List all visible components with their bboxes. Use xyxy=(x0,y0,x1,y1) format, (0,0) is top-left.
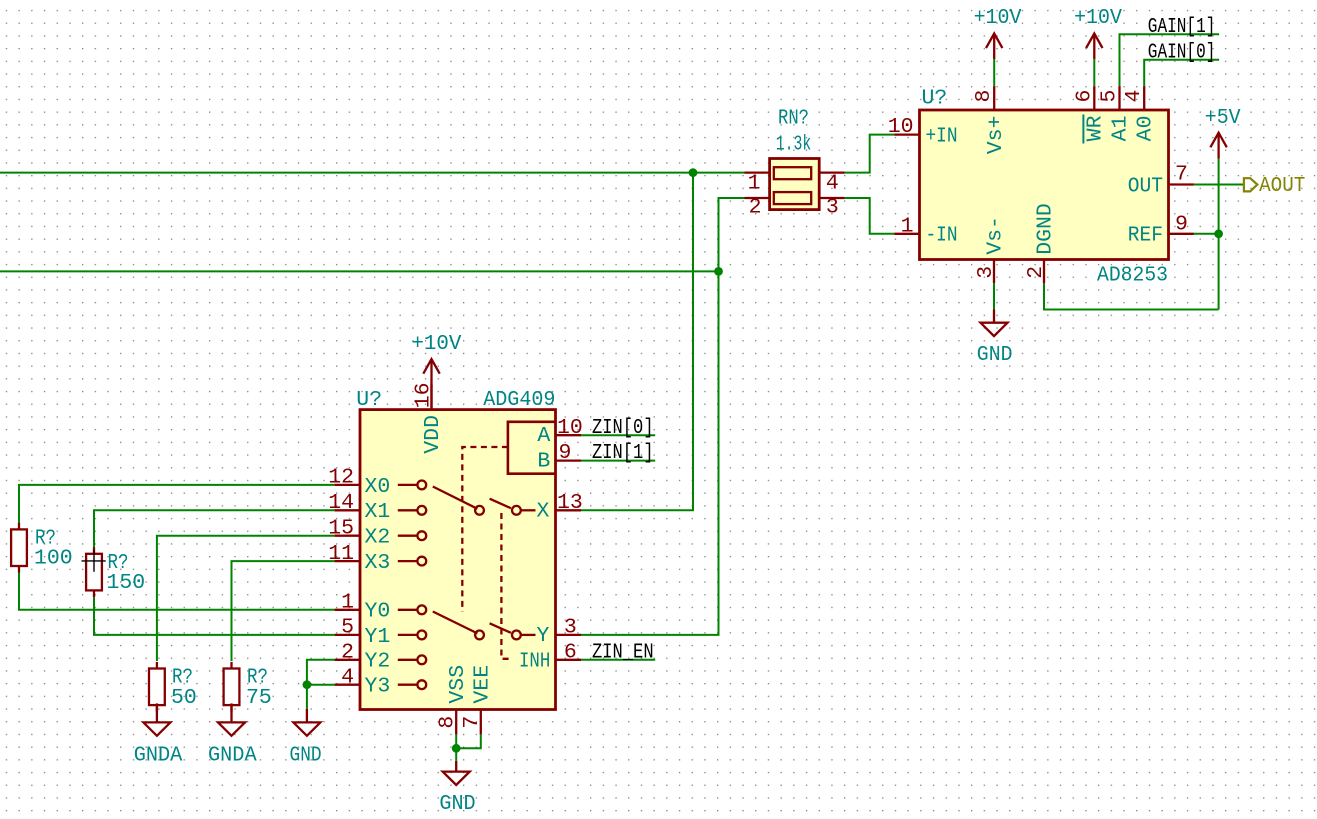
U1 pin 4 number xyxy=(1122,90,1146,103)
wire INH ZIN_EN xyxy=(581,659,655,661)
wire X0 to R1 top xyxy=(19,485,335,523)
U2 control box A/B xyxy=(508,422,556,474)
svg-text:+IN: +IN xyxy=(926,125,958,149)
svg-text:A: A xyxy=(537,424,550,448)
U2 switch contact X2 xyxy=(398,531,426,540)
label ZIN_EN xyxy=(592,640,654,664)
U1 pin name A0 xyxy=(1133,116,1157,142)
U1 pin 4 A0 stub xyxy=(1143,86,1145,110)
svg-text:X0: X0 xyxy=(365,475,391,499)
U2 pin name A xyxy=(537,424,550,448)
svg-text:AOUT: AOUT xyxy=(1259,174,1305,198)
svg-text:X2: X2 xyxy=(365,526,391,550)
cursor crosshair xyxy=(82,550,106,572)
U1 pin name WR with overline xyxy=(1083,115,1107,144)
U1 pin 3 Vs- stub xyxy=(993,260,995,284)
U2 switch contact X1 xyxy=(398,506,426,515)
svg-text:AD8253: AD8253 xyxy=(1097,263,1168,287)
U1 pin 5 A1 stub xyxy=(1118,86,1120,110)
svg-text:10: 10 xyxy=(557,416,583,440)
U2 pin 14 number xyxy=(328,491,354,515)
U1 pin name -IN xyxy=(926,224,958,248)
wire R2 bottom to Y1 xyxy=(94,597,335,635)
label RN? reference xyxy=(778,107,809,131)
U2 switch contact Y3 xyxy=(398,680,426,689)
svg-text:7: 7 xyxy=(1175,163,1188,187)
svg-text:+10V: +10V xyxy=(411,332,461,356)
svg-text:1: 1 xyxy=(341,591,354,615)
U1 pin 7 OUT stub xyxy=(1169,183,1194,185)
svg-text:DGND: DGND xyxy=(1034,203,1058,255)
ground GNDA under R4 xyxy=(218,703,245,735)
op-amp U1 AD8253 body xyxy=(920,110,1169,260)
svg-text:Y: Y xyxy=(536,624,549,648)
svg-text:2: 2 xyxy=(1024,266,1048,279)
label R1 reference R? xyxy=(35,527,56,551)
U1 pin 2 number xyxy=(1024,266,1048,279)
U2 pin 4 Y3 stub xyxy=(335,684,360,686)
label R3 value 50 xyxy=(171,686,197,710)
svg-text:ZIN[0]: ZIN[0] xyxy=(592,416,654,440)
wire Y2 to GND xyxy=(307,660,335,685)
resistor R3 lead top xyxy=(156,662,158,669)
power +5V xyxy=(1210,133,1226,159)
U2 pin 6 number xyxy=(564,640,577,664)
svg-text:VDD: VDD xyxy=(421,415,445,454)
wire net IN- horizontal xyxy=(0,270,719,272)
resistor R2 lead top xyxy=(93,547,95,554)
label R1 value 100 xyxy=(34,547,73,571)
wire OUT to AOUT xyxy=(1194,184,1243,186)
U2 pin 7 VEE stub xyxy=(480,710,482,735)
U2 pin 1 number xyxy=(341,591,354,615)
U2 pin 16 VDD stub xyxy=(430,384,432,409)
svg-text:16: 16 xyxy=(412,382,436,408)
svg-text:4: 4 xyxy=(826,171,839,195)
U1 pin 10 +IN stub xyxy=(894,133,919,135)
ground GND under VSS/VEE xyxy=(443,761,470,785)
U2 pin 11 X3 stub xyxy=(335,560,360,562)
label RN? value 1.3k xyxy=(776,132,812,156)
resistor R3 lead bottom xyxy=(156,705,158,712)
wire Vs+ to +10V xyxy=(993,59,995,86)
U2 pin 12 number xyxy=(328,466,354,490)
U2 pin 8 VSS stub xyxy=(455,710,457,735)
U2 label ADG409 xyxy=(483,388,555,412)
wire X2 to R3 top xyxy=(157,536,335,661)
U2 pin name Y2 xyxy=(365,650,391,674)
U2 pin 10 A stub xyxy=(556,434,582,436)
U2 dashed control line 2 xyxy=(501,513,509,659)
svg-text:100: 100 xyxy=(34,547,73,571)
svg-text:GAIN[0]: GAIN[0] xyxy=(1148,40,1216,64)
wire +5V vertical xyxy=(1218,159,1220,310)
U2 pin name Y3 xyxy=(365,675,391,699)
RN pin 1 number xyxy=(748,171,761,195)
svg-text:1: 1 xyxy=(748,171,761,195)
wire R1 bottom to Y0 xyxy=(19,572,335,609)
U1 pin name Vs+ xyxy=(984,116,1008,155)
U2 pin 10 number xyxy=(557,416,583,440)
svg-text:U?: U? xyxy=(356,388,382,412)
svg-text:GND: GND xyxy=(977,343,1013,367)
svg-text:U?: U? xyxy=(922,87,948,111)
wire pin A ZIN[0] xyxy=(581,434,655,436)
label GND xyxy=(439,792,475,816)
U2 pin 11 number xyxy=(328,542,354,566)
resistor R4 lead top xyxy=(230,662,232,669)
svg-text:8: 8 xyxy=(972,90,996,103)
RN pin 3 number xyxy=(826,196,839,220)
svg-text:6: 6 xyxy=(564,640,577,664)
U2 pin 8 number xyxy=(436,716,460,729)
resistor R1 lead bottom xyxy=(18,566,20,573)
svg-text:5: 5 xyxy=(341,616,354,640)
U2 pin 9 number xyxy=(559,441,572,465)
label R2 value 150 xyxy=(107,571,146,595)
U2 pin 5 number xyxy=(341,616,354,640)
U2 switch contact X3 xyxy=(398,557,426,566)
svg-text:Y2: Y2 xyxy=(365,650,391,674)
label GND xyxy=(290,743,322,767)
U2 switch contact Y0 xyxy=(398,605,426,614)
wire GND stem below junction xyxy=(306,685,308,709)
svg-text:4: 4 xyxy=(341,666,354,690)
U1 pin 8 number xyxy=(972,90,996,103)
label +10V xyxy=(1074,6,1122,30)
junction VSS/VEE GND xyxy=(452,744,461,753)
svg-text:+10V: +10V xyxy=(1074,6,1122,30)
svg-text:2: 2 xyxy=(341,641,354,665)
mux U2 ADG409 body xyxy=(360,410,556,710)
U2 switch blade X xyxy=(433,487,478,509)
U2 pin 13 number xyxy=(557,491,583,515)
svg-text:75: 75 xyxy=(246,686,272,710)
label R4 value 75 xyxy=(246,686,272,710)
wire REF xyxy=(1194,233,1219,235)
ground GND under Vs- xyxy=(981,310,1008,337)
U2 pin 5 Y1 stub xyxy=(335,634,360,636)
wire Y-common to RN pin2 xyxy=(581,198,745,635)
U2 pin 2 Y2 stub xyxy=(335,659,360,661)
junction IN+ / X-common xyxy=(689,168,698,177)
ground GNDA under R3 xyxy=(143,703,170,735)
svg-text:6: 6 xyxy=(1072,90,1096,103)
resistor R2 body xyxy=(86,554,102,591)
junction IN- / Y-common xyxy=(714,267,723,276)
svg-text:VEE: VEE xyxy=(471,665,495,704)
power +10V over Vs+ xyxy=(986,34,1002,60)
resistor network RN? body xyxy=(745,159,845,210)
svg-text:A1: A1 xyxy=(1109,116,1133,142)
resistor R1 body xyxy=(11,529,27,566)
RN pin 4 number xyxy=(826,171,839,195)
svg-text:-IN: -IN xyxy=(926,224,958,248)
wire DGND to REF net xyxy=(1044,283,1219,309)
label +5V xyxy=(1205,106,1241,130)
svg-text:WR: WR xyxy=(1083,115,1107,141)
U1 pin 10 number xyxy=(888,115,914,139)
U2 pin name INH xyxy=(519,650,550,674)
U2 pin name B xyxy=(537,450,550,474)
U2 pin 15 number xyxy=(328,517,354,541)
svg-text:3: 3 xyxy=(826,196,839,220)
power +10V over ADG409 VDD xyxy=(423,359,439,410)
U1 pin 7 number xyxy=(1175,163,1188,187)
U2 pin 16 number xyxy=(412,382,436,408)
U2 pin 4 number xyxy=(341,666,354,690)
svg-text:OUT: OUT xyxy=(1128,174,1163,198)
wire net IN+ horizontal xyxy=(0,172,745,174)
junction REF / +5V net xyxy=(1214,229,1223,238)
wire VEE to GND xyxy=(456,735,481,749)
svg-text:GND: GND xyxy=(290,743,322,767)
U2 switch pole X xyxy=(475,499,535,515)
label ZIN[1] xyxy=(592,441,654,465)
U1 pin 9 REF stub xyxy=(1169,233,1194,235)
U2 label U? xyxy=(356,388,382,412)
svg-text:15: 15 xyxy=(328,517,354,541)
wire Vs- to GND xyxy=(993,283,995,309)
svg-text:REF: REF xyxy=(1128,224,1163,248)
U2 switch pole Y xyxy=(475,623,535,639)
U2 pin name Y0 xyxy=(365,600,391,624)
U2 dashed control line 1 xyxy=(462,447,508,612)
svg-text:11: 11 xyxy=(328,542,354,566)
svg-text:4: 4 xyxy=(1122,90,1146,103)
svg-text:GNDA: GNDA xyxy=(208,743,257,767)
label GND xyxy=(977,343,1013,367)
U2 pin name X xyxy=(536,500,549,524)
svg-text:9: 9 xyxy=(1175,212,1188,236)
svg-text:ZIN_EN: ZIN_EN xyxy=(592,640,654,664)
U2 pin name VSS xyxy=(446,665,470,704)
U2 pin 12 X0 stub xyxy=(335,484,360,486)
svg-text:12: 12 xyxy=(328,466,354,490)
svg-text:A0: A0 xyxy=(1133,116,1157,142)
svg-text:GAIN[1]: GAIN[1] xyxy=(1148,15,1216,39)
U2 pin name Y xyxy=(536,624,549,648)
U1 pin 8 Vs+ stub xyxy=(993,86,995,110)
svg-text:ZIN[1]: ZIN[1] xyxy=(592,441,654,465)
U1 pin name DGND xyxy=(1034,203,1058,255)
U2 switch contact X0 xyxy=(398,481,426,490)
U2 switch contact Y2 xyxy=(398,655,426,664)
resistor R4 lead bottom xyxy=(230,705,232,712)
label GNDA xyxy=(208,743,257,767)
junction Y2/Y3 GND xyxy=(303,680,312,689)
svg-text:+5V: +5V xyxy=(1205,106,1241,130)
svg-text:10: 10 xyxy=(888,115,914,139)
wire WR to +10V xyxy=(1093,59,1095,86)
U1 label U? xyxy=(922,87,948,111)
svg-text:+10V: +10V xyxy=(974,6,1022,30)
wire VSS to GND xyxy=(455,735,457,761)
U2 pin 7 number xyxy=(460,716,484,729)
wire RN pin3 to -IN xyxy=(845,198,895,234)
svg-text:150: 150 xyxy=(107,571,146,595)
svg-text:8: 8 xyxy=(436,716,460,729)
U1 pin name REF xyxy=(1128,224,1163,248)
svg-text:3: 3 xyxy=(564,616,577,640)
resistor R3 body xyxy=(149,669,165,706)
U1 pin 5 number xyxy=(1098,90,1122,103)
power +10V over WR xyxy=(1086,34,1102,60)
label +10V xyxy=(974,6,1022,30)
wire pin B ZIN[1] xyxy=(581,460,655,462)
label GAIN[0] xyxy=(1148,40,1216,64)
U1 pin 3 number xyxy=(974,266,998,279)
label R4 reference R? xyxy=(247,666,268,690)
U2 pin name X3 xyxy=(365,551,391,575)
ground GND under Y2/Y3 xyxy=(293,709,320,736)
U1 pin 1 -IN stub xyxy=(894,233,919,235)
U2 pin 2 number xyxy=(341,641,354,665)
U2 pin 14 X1 stub xyxy=(335,509,360,511)
U2 pin name VDD xyxy=(421,415,445,454)
U2 pin name Y1 xyxy=(365,625,391,649)
label ZIN[0] xyxy=(592,416,654,440)
U2 pin name X2 xyxy=(365,526,391,550)
svg-text:3: 3 xyxy=(974,266,998,279)
svg-text:1.3k: 1.3k xyxy=(776,132,812,156)
label R3 reference R? xyxy=(172,666,193,690)
svg-text:Y1: Y1 xyxy=(365,625,391,649)
resistor R1 lead top xyxy=(18,523,20,530)
svg-text:Y0: Y0 xyxy=(365,600,391,624)
label +10V xyxy=(411,332,461,356)
svg-text:B: B xyxy=(537,450,550,474)
U2 pin 3 Y stub xyxy=(556,634,582,636)
label R2 reference R? xyxy=(108,551,129,575)
svg-text:Y3: Y3 xyxy=(365,675,391,699)
U1 pin name OUT xyxy=(1128,174,1163,198)
U2 pin 15 X2 stub xyxy=(335,535,360,537)
svg-text:5: 5 xyxy=(1098,90,1122,103)
U2 pin 9 B stub xyxy=(556,459,582,461)
svg-text:VSS: VSS xyxy=(446,665,470,704)
svg-text:GND: GND xyxy=(439,792,475,816)
svg-text:2: 2 xyxy=(749,196,762,220)
wire X-common to IN+ vertical xyxy=(581,173,693,511)
wire X1 to R2 top xyxy=(94,510,335,547)
U2 pin name X1 xyxy=(365,500,391,524)
svg-text:1: 1 xyxy=(901,214,914,238)
U1 pin 2 DGND stub xyxy=(1043,260,1045,284)
wire RN pin4 to +IN xyxy=(845,135,895,173)
U1 label AD8253 xyxy=(1097,263,1168,287)
U2 pin name X0 xyxy=(365,475,391,499)
svg-text:RN?: RN? xyxy=(778,107,809,131)
resistor R2 lead bottom xyxy=(93,590,95,597)
U2 switch contact Y1 xyxy=(398,631,426,640)
svg-text:INH: INH xyxy=(519,650,550,674)
U2 pin 3 number xyxy=(564,616,577,640)
wire X3 to R4 top xyxy=(232,561,335,661)
svg-text:X3: X3 xyxy=(365,551,391,575)
svg-text:ADG409: ADG409 xyxy=(483,388,555,412)
svg-text:50: 50 xyxy=(171,686,197,710)
svg-text:7: 7 xyxy=(460,716,484,729)
U1 pin 6 WR stub xyxy=(1093,86,1095,110)
wire Y3 to GND xyxy=(307,684,335,686)
hierarchical label AOUT xyxy=(1244,174,1305,198)
svg-text:X1: X1 xyxy=(365,500,391,524)
U1 pin 6 number xyxy=(1072,90,1096,103)
svg-text:13: 13 xyxy=(557,491,583,515)
U1 pin name Vs- xyxy=(984,216,1008,255)
resistor R4 body xyxy=(224,669,240,706)
wire GAIN[1] to A1 xyxy=(1120,34,1220,86)
U1 pin name +IN xyxy=(926,125,958,149)
wire GAIN[0] to A0 xyxy=(1144,60,1219,86)
U2 pin 1 Y0 stub xyxy=(335,609,360,611)
svg-text:X: X xyxy=(536,500,549,524)
U1 pin 9 number xyxy=(1175,212,1188,236)
U2 switch blade Y xyxy=(433,612,478,634)
svg-text:9: 9 xyxy=(559,441,572,465)
U2 pin name VEE xyxy=(471,665,495,704)
svg-text:Vs+: Vs+ xyxy=(984,116,1008,155)
U2 pin 13 X stub xyxy=(556,509,582,511)
label GAIN[1] xyxy=(1148,15,1216,39)
U1 pin 1 number xyxy=(901,214,914,238)
svg-text:Vs-: Vs- xyxy=(984,216,1008,255)
RN pin 2 number xyxy=(749,196,762,220)
U1 pin name A1 xyxy=(1109,116,1133,142)
svg-text:GNDA: GNDA xyxy=(134,743,183,767)
svg-text:14: 14 xyxy=(328,491,354,515)
U2 pin 6 INH stub xyxy=(556,659,582,661)
label GNDA xyxy=(134,743,183,767)
